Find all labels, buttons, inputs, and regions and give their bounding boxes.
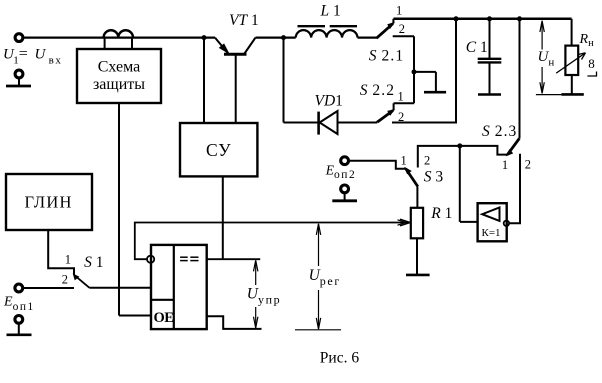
svg-text:R 1: R 1	[430, 205, 452, 222]
svg-text:Uн: Uн	[538, 49, 555, 69]
svg-text:L 1: L 1	[320, 3, 341, 20]
svg-text:2: 2	[62, 273, 68, 287]
svg-text:Eоп2: Eоп2	[325, 163, 356, 182]
svg-text:защиты: защиты	[93, 76, 145, 93]
svg-text:8: 8	[588, 56, 595, 71]
svg-text:2: 2	[525, 157, 531, 171]
svg-text:S 3: S 3	[424, 169, 444, 186]
svg-text:2: 2	[424, 154, 430, 168]
svg-text:Схема: Схема	[98, 59, 141, 76]
svg-text:S 2.3: S 2.3	[482, 123, 517, 140]
svg-text:VT 1: VT 1	[229, 12, 259, 29]
svg-text:Uупр: Uупр	[247, 286, 281, 307]
svg-text:1: 1	[401, 154, 407, 168]
svg-text:S 2.1: S 2.1	[369, 47, 404, 64]
svg-text:C 1: C 1	[466, 39, 488, 56]
svg-text:S 1: S 1	[84, 254, 103, 271]
svg-text:VD1: VD1	[315, 93, 343, 110]
svg-text:Eоп1: Eоп1	[3, 295, 35, 314]
svg-text:СУ: СУ	[206, 140, 231, 160]
svg-text:2: 2	[398, 110, 404, 124]
svg-text:2: 2	[399, 22, 405, 36]
svg-text:1: 1	[396, 4, 402, 18]
svg-text:ГЛИН: ГЛИН	[24, 193, 72, 212]
svg-text:U1=Uвх: U1=Uвх	[3, 46, 63, 67]
svg-text:S 2.2: S 2.2	[360, 82, 395, 99]
svg-text:Рис. 6: Рис. 6	[320, 350, 360, 367]
svg-text:Uрег: Uрег	[309, 267, 341, 288]
svg-text:1: 1	[502, 158, 508, 172]
svg-text:1: 1	[65, 253, 71, 267]
svg-text:К=1: К=1	[482, 227, 501, 239]
svg-text:ОЕ: ОЕ	[154, 310, 174, 326]
svg-text:1: 1	[398, 89, 404, 103]
svg-text:Rн: Rн	[579, 32, 595, 49]
